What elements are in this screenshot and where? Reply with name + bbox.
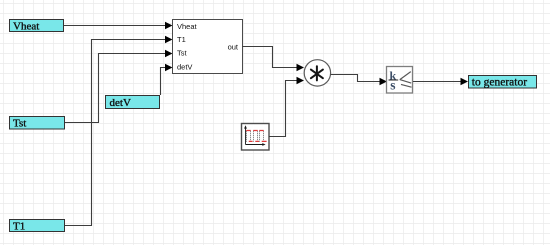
wire detV to subsystem port 4: [161, 64, 173, 95]
wire product to integrator: [331, 75, 388, 86]
wire Tst to subsystem port 3: [65, 50, 173, 123]
svg-text:Tst: Tst: [13, 117, 26, 129]
svg-text:detV: detV: [110, 97, 131, 109]
svg-text:Vheat: Vheat: [13, 20, 39, 32]
wire pulse generator to product input 2: [269, 77, 304, 137]
svg-text:Vheat: Vheat: [177, 22, 198, 31]
pulse generator block: [242, 124, 270, 151]
subsystem block U1: [173, 20, 243, 74]
wire out to product input 1: [242, 47, 304, 72]
svg-text:to generator: to generator: [472, 76, 527, 88]
svg-text:T1: T1: [13, 220, 25, 232]
svg-text:Tst: Tst: [177, 49, 188, 58]
product block (asterisk): [304, 60, 330, 86]
source block detV: [106, 96, 160, 109]
svg-text:T1: T1: [177, 35, 186, 44]
sink block to generator: [469, 76, 537, 89]
source block Tst: [10, 117, 65, 130]
svg-text:out: out: [228, 43, 239, 52]
svg-text:s: s: [390, 78, 395, 93]
wire integrator to sink: [413, 78, 468, 85]
svg-text:detV: detV: [177, 63, 192, 72]
wire Vheat to subsystem port 1: [64, 22, 173, 29]
integrator block k/s with saturation limit: [387, 67, 413, 94]
source block Vheat: [10, 20, 64, 33]
source block T1: [10, 220, 65, 233]
wire T1 to subsystem port 2: [65, 36, 173, 226]
